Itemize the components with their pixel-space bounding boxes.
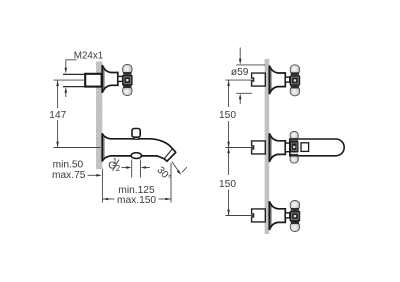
svg-text:147: 147 [49,110,66,121]
svg-text:ø59: ø59 [231,67,249,78]
svg-text:2: 2 [116,164,121,173]
svg-text:30°: 30° [154,165,173,184]
svg-text:150: 150 [219,179,236,190]
svg-text:M24x1: M24x1 [74,51,103,62]
svg-text:150: 150 [219,110,236,121]
svg-text:max.150: max.150 [117,195,156,206]
svg-text:max.75: max.75 [52,170,86,181]
